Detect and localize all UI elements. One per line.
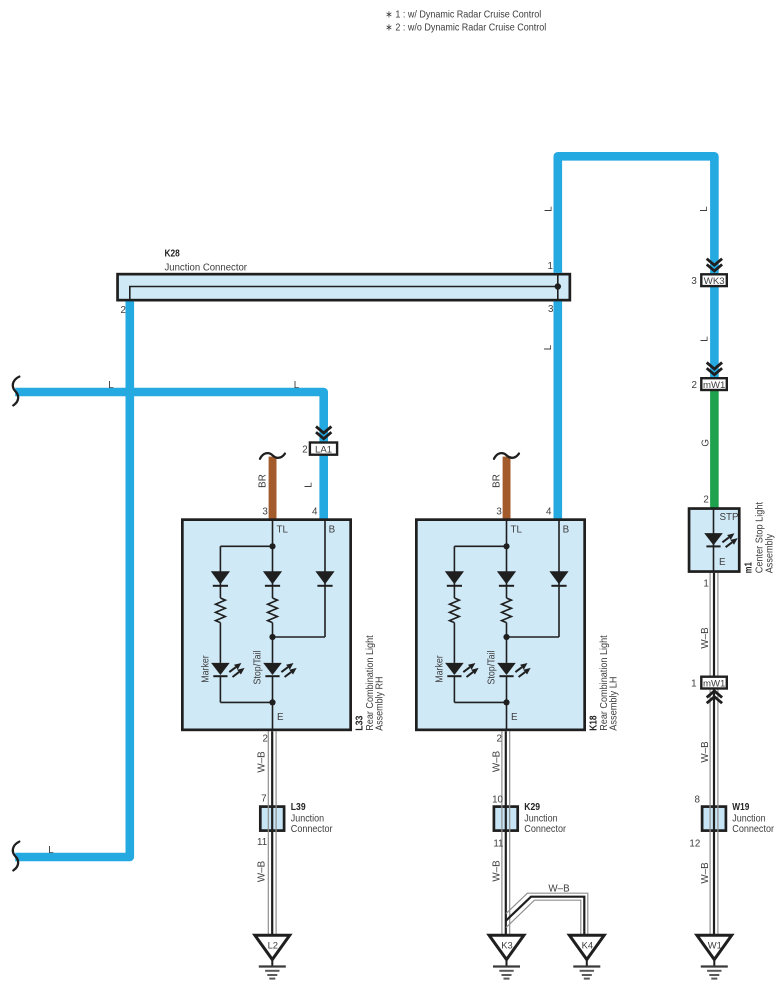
svg-text:L: L <box>294 380 300 391</box>
svg-text:W1: W1 <box>708 940 722 951</box>
svg-text:K4: K4 <box>582 940 593 951</box>
svg-text:2: 2 <box>302 444 307 455</box>
svg-text:L: L <box>108 380 114 391</box>
svg-text:Assembly: Assembly <box>764 533 775 573</box>
svg-text:L: L <box>699 206 710 212</box>
svg-text:K18: K18 <box>588 715 599 731</box>
svg-text:L33: L33 <box>354 715 365 731</box>
svg-text:Assembly RH: Assembly RH <box>375 677 386 731</box>
svg-text:1: 1 <box>703 578 708 589</box>
svg-text:W–B: W–B <box>492 860 503 882</box>
svg-text:2: 2 <box>497 734 502 745</box>
svg-text:3: 3 <box>691 276 697 287</box>
svg-text:Connector: Connector <box>524 824 566 835</box>
svg-text:2: 2 <box>703 495 708 506</box>
svg-text:W–B: W–B <box>492 750 503 772</box>
svg-text:L39: L39 <box>291 802 306 813</box>
svg-text:mW1: mW1 <box>703 678 725 689</box>
svg-text:WK3: WK3 <box>704 276 725 287</box>
svg-text:K3: K3 <box>501 940 512 951</box>
svg-text:L: L <box>48 845 54 856</box>
svg-text:W–B: W–B <box>700 862 711 884</box>
svg-text:3: 3 <box>496 506 502 517</box>
svg-text:L: L <box>304 482 315 488</box>
svg-text:G: G <box>701 439 712 447</box>
svg-text:W19: W19 <box>732 802 749 813</box>
svg-text:K28: K28 <box>165 249 181 260</box>
svg-text:STP: STP <box>720 512 740 523</box>
svg-text:W–B: W–B <box>548 883 570 894</box>
svg-text:E: E <box>719 557 726 568</box>
svg-text:L: L <box>544 206 555 212</box>
svg-text:11: 11 <box>493 838 503 849</box>
svg-text:W–B: W–B <box>700 627 711 649</box>
svg-text:2: 2 <box>121 305 126 316</box>
svg-text:2: 2 <box>692 380 697 391</box>
svg-text:12: 12 <box>689 838 700 849</box>
svg-text:m1: m1 <box>743 562 754 573</box>
svg-text:L2: L2 <box>268 940 278 951</box>
svg-text:mW1: mW1 <box>703 380 725 391</box>
svg-text:LA1: LA1 <box>315 444 332 455</box>
svg-text:W–B: W–B <box>700 741 711 763</box>
svg-text:W–B: W–B <box>256 751 267 773</box>
svg-text:4: 4 <box>546 506 552 517</box>
svg-text:Junction Connector: Junction Connector <box>165 262 248 273</box>
svg-text:1: 1 <box>691 679 696 690</box>
svg-text:Assembly LH: Assembly LH <box>609 677 620 731</box>
svg-text:3: 3 <box>262 506 268 517</box>
svg-text:∗ 2 : w/o Dynamic Radar Cruise: ∗ 2 : w/o Dynamic Radar Cruise Control <box>385 22 546 33</box>
svg-text:BR: BR <box>492 474 503 488</box>
svg-text:11: 11 <box>257 837 267 848</box>
svg-text:7: 7 <box>261 794 266 805</box>
svg-text:∗ 1 : w/ Dynamic Radar Cruise: ∗ 1 : w/ Dynamic Radar Cruise Control <box>385 9 541 20</box>
svg-text:10: 10 <box>492 794 503 805</box>
svg-text:4: 4 <box>312 506 318 517</box>
svg-text:Connector: Connector <box>732 824 774 835</box>
svg-text:1: 1 <box>548 261 553 272</box>
svg-text:K29: K29 <box>524 802 540 813</box>
svg-text:L: L <box>699 336 710 342</box>
svg-text:W–B: W–B <box>256 860 267 882</box>
svg-text:BR: BR <box>258 474 269 488</box>
svg-text:3: 3 <box>548 304 554 315</box>
svg-text:8: 8 <box>695 794 701 805</box>
svg-text:Connector: Connector <box>291 824 333 835</box>
svg-text:L: L <box>543 344 554 350</box>
svg-text:2: 2 <box>263 734 268 745</box>
